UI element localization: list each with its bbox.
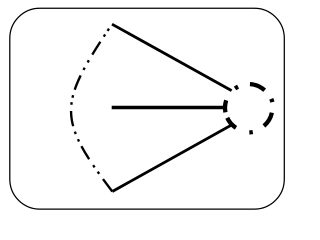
source circle dot upper-right bbox=[271, 99, 272, 102]
beam wavefront arc (dash-dot-dot) bbox=[71, 24, 112, 191]
beam axis line bbox=[112, 106, 226, 110]
source circle dot bottom bbox=[249, 130, 252, 135]
source circle dot upper-left bbox=[235, 87, 238, 89]
source circle dash left bbox=[225, 100, 226, 112]
beam boundary line lower bbox=[112, 125, 231, 192]
source circle dash bottom-left bbox=[227, 118, 236, 128]
beam boundary line upper bbox=[112, 24, 232, 90]
symbol border (rounded enclosure) bbox=[10, 8, 285, 209]
source circle dash top bbox=[250, 84, 265, 90]
source circle dash lower-right bbox=[264, 113, 272, 126]
